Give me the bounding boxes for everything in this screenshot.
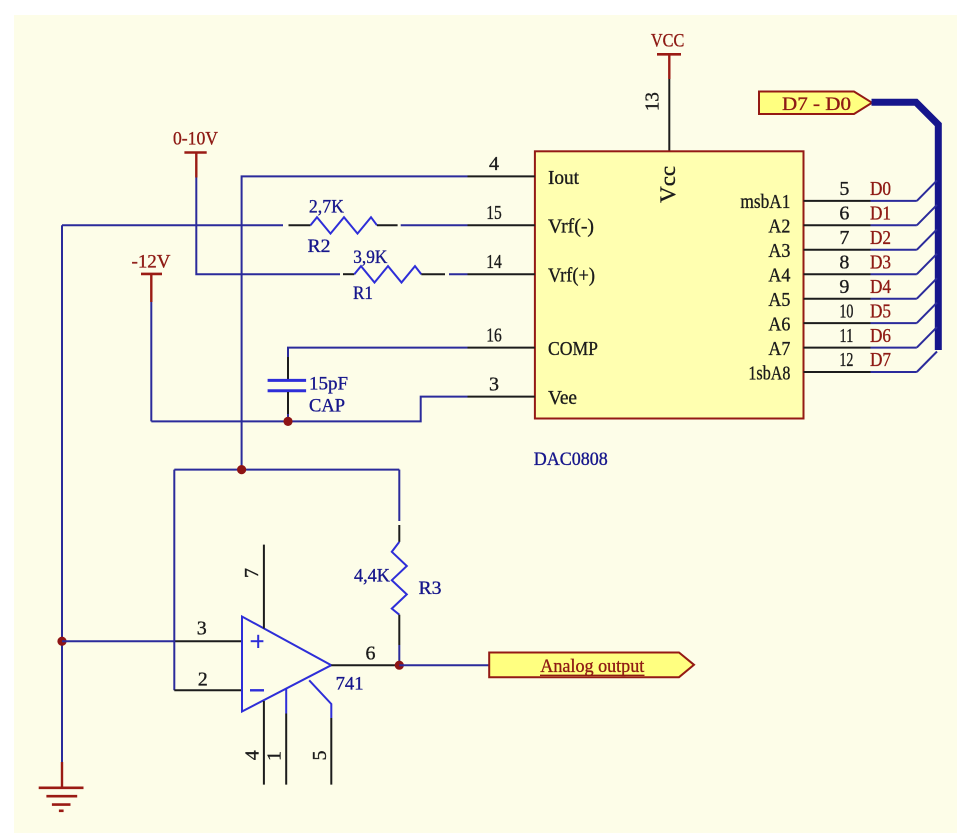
svg-text:5: 5 [839,178,849,200]
svg-text:DAC0808: DAC0808 [534,449,608,470]
svg-text:D7: D7 [870,349,891,371]
svg-text:CAP: CAP [309,396,345,417]
wire COMP to capacitor [288,348,468,357]
port D7 - D0 [759,92,872,115]
pin 6 A2 / net D1 [804,203,938,226]
svg-text:6: 6 [839,203,849,225]
pin 7 A3 / net D2 [804,227,938,250]
svg-text:R2: R2 [308,236,331,257]
wire Vrf- net from left rail [62,224,283,226]
svg-text:D3: D3 [870,251,891,273]
capacitor C1 [268,357,348,421]
svg-text:7: 7 [839,227,849,249]
svg-text:5: 5 [309,751,331,761]
svg-text:D6: D6 [870,325,891,347]
svg-text:D2: D2 [870,227,891,249]
svg-text:A4: A4 [768,265,790,287]
svg-text:8: 8 [839,251,849,273]
svg-text:11: 11 [839,325,853,347]
svg-text:10: 10 [839,300,853,322]
svg-text:15pF: 15pF [309,374,348,395]
pin 4 Iout [468,175,535,177]
svg-text:3: 3 [489,373,499,395]
svg-text:D4: D4 [870,276,891,298]
svg-text:Analog output: Analog output [540,656,645,677]
pin 7 [263,545,265,629]
svg-text:1sbA8: 1sbA8 [748,362,790,384]
wire feedback left leg to inverting input [173,470,175,691]
wire Vee rail [151,397,467,422]
pin 15 Vrf(-) [468,224,535,226]
svg-text:Iout: Iout [548,167,579,189]
svg-text:R3: R3 [419,578,442,599]
port Analog output [489,653,694,678]
wire -12V down to Vee rail [150,302,152,421]
wire output to port [399,664,489,666]
pin 9 A5 / net D4 [804,276,938,299]
svg-text:3: 3 [197,618,207,640]
bus D7-D0 [872,102,939,350]
svg-text:D7 - D0: D7 - D0 [782,94,851,115]
svg-text:msbA1: msbA1 [740,191,790,213]
svg-text:Vcc: Vcc [655,166,680,203]
svg-text:741: 741 [336,674,364,695]
pin 3 Vee [468,396,535,398]
svg-text:A3: A3 [768,240,790,262]
svg-text:Vrf(-): Vrf(-) [548,216,594,238]
power symbol VCC [651,31,685,79]
svg-text:D0: D0 [870,178,891,200]
pin 4 [263,701,265,785]
node output junction [395,661,404,670]
pin 14 Vrf(+) [468,273,535,275]
power symbol -12V [132,251,171,302]
svg-text:14: 14 [486,251,502,273]
node cap/Vee junction [283,417,292,426]
svg-text:2: 2 [198,669,208,691]
svg-text:1: 1 [264,751,286,761]
svg-text:4: 4 [241,750,263,760]
svg-text:A7: A7 [768,338,790,360]
svg-text:15: 15 [486,202,502,224]
svg-text:Vrf(+): Vrf(+) [548,265,595,287]
pin 13 VCC [668,79,670,151]
svg-text:D5: D5 [870,300,891,322]
svg-text:A6: A6 [768,313,790,335]
pin 8 A4 / net D3 [804,251,938,274]
ground [39,762,84,811]
svg-text:-12V: -12V [132,251,171,272]
resistor R1 3,9K [343,247,445,304]
wire Iout to feedback node [242,176,468,469]
svg-text:2,7K: 2,7K [309,197,344,218]
pin 1 [285,688,287,713]
wire 0-10V down to Vrf+ line [196,178,340,275]
pin 11 A7 / net D6 [804,325,938,348]
power symbol 0-10V [173,129,218,178]
svg-text:R1: R1 [353,283,373,304]
svg-text:16: 16 [486,324,502,346]
svg-text:7: 7 [241,568,263,578]
svg-text:A5: A5 [768,289,790,311]
wire R2 to pin15 [401,224,468,226]
node feedback junction [174,465,399,474]
wire R1 to pin14 [449,273,468,275]
pin 5 msbA1 / net D0 [804,178,938,201]
wire to op-amp plus input [62,640,175,642]
svg-text:0-10V: 0-10V [173,129,218,150]
pin 6 output [331,664,399,666]
pin 5 [309,680,331,718]
svg-text:4,4K: 4,4K [354,565,390,586]
svg-text:D1: D1 [870,203,891,225]
svg-text:13: 13 [642,92,664,111]
svg-text:3,9K: 3,9K [353,247,387,268]
resistor R2 2,7K [289,197,398,258]
pin 12 lsbA8 / net D7 [804,349,938,372]
node plus-input junction [57,637,66,646]
svg-text:VCC: VCC [651,31,685,52]
svg-text:COMP: COMP [548,338,598,360]
svg-text:12: 12 [839,349,853,371]
svg-text:4: 4 [489,153,499,175]
op-amp U2 741 [242,617,364,712]
resistor R3 4,4K [354,470,442,666]
pin 10 A6 / net D5 [804,300,938,323]
svg-text:6: 6 [366,643,376,665]
svg-text:A2: A2 [768,216,790,238]
svg-text:Vee: Vee [548,387,577,409]
pin 16 COMP [468,347,535,349]
IC U1 DAC0808 [535,151,804,418]
wire left rail vertical [61,225,63,762]
svg-text:9: 9 [839,276,849,298]
